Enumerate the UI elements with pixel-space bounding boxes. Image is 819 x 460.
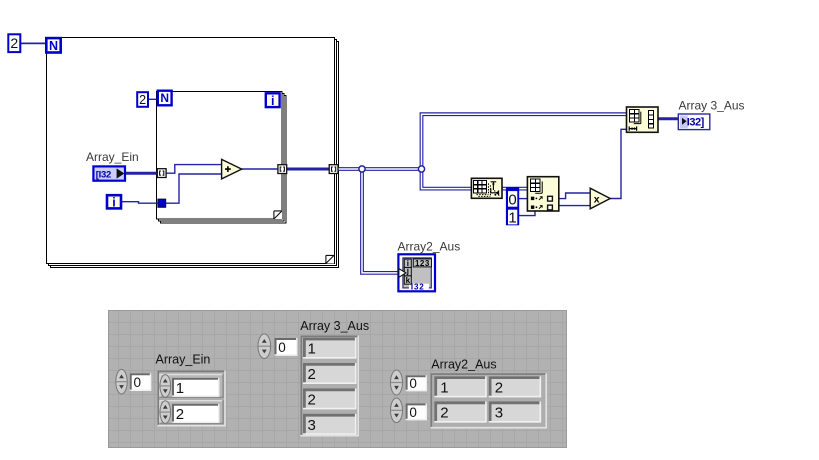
- indicator terminal Array 3_Aus [I32]: [678, 114, 710, 130]
- wire: junction down to Transpose (2D): [422, 169, 472, 189]
- Array2_Aus element 1,1: [434, 376, 486, 397]
- Array_Ein index spinner: [116, 369, 127, 394]
- wire: left tunnel to adder upper input: [166, 165, 222, 174]
- svg-text:N: N: [160, 91, 169, 105]
- 0 and 1 constants rail: [506, 187, 519, 227]
- svg-text:I32: I32: [411, 283, 425, 292]
- svg-text:3: 3: [308, 417, 316, 434]
- Array 3_Aus element 4: [303, 414, 357, 435]
- inner for loop frame: [157, 92, 287, 224]
- svg-text:0: 0: [409, 405, 417, 420]
- Array2_Aus element 1,2: [489, 376, 541, 397]
- svg-text:i: i: [112, 195, 115, 209]
- Array_Ein element 2: [159, 400, 224, 424]
- wire: junction up to Build Array (2D): [422, 114, 627, 169]
- Array2_Aus row index spinner 2: [391, 398, 403, 423]
- fold corner outer loop: [326, 255, 334, 263]
- svg-text:Array_Ein: Array_Ein: [156, 353, 211, 367]
- Array 3_Aus container: [301, 336, 360, 437]
- adder node (+): [222, 159, 242, 179]
- wire: multiply out to Build Array: [610, 129, 627, 198]
- wire: constant 2 to outer N: [21, 42, 47, 44]
- Array2_Aus element 2,1: [434, 401, 486, 422]
- svg-text:2: 2: [308, 366, 316, 383]
- svg-text:1: 1: [176, 380, 184, 397]
- indicator terminal Array2_Aus (2D array): [398, 254, 435, 291]
- svg-text:2: 2: [308, 391, 316, 408]
- svg-text:2: 2: [176, 406, 184, 423]
- svg-text:0: 0: [134, 375, 142, 390]
- Array_Ein index box: [130, 373, 152, 391]
- Array2_Aus row index spinner 1: [391, 370, 403, 395]
- svg-text:2: 2: [495, 379, 503, 396]
- svg-text:2: 2: [10, 35, 18, 51]
- svg-text:N: N: [49, 39, 58, 53]
- wire: adder output to inner right tunnel: [242, 168, 279, 170]
- svg-text:x: x: [594, 193, 600, 205]
- svg-text:i: i: [271, 94, 274, 108]
- Array2_Aus element 2,2: [489, 401, 541, 422]
- svg-text:Array_Ein: Array_Ein: [86, 150, 139, 164]
- svg-text:j: j: [406, 266, 409, 275]
- svg-text:I32]: I32]: [687, 117, 705, 129]
- Array2_Aus row index box 1: [406, 375, 427, 391]
- svg-text:Array2_Aus: Array2_Aus: [398, 240, 461, 254]
- Array 3_Aus element 1: [303, 338, 357, 359]
- svg-text:Array 3_Aus: Array 3_Aus: [300, 319, 369, 333]
- build array node: [627, 107, 659, 132]
- wire: blue tunnel to adder lower input: [166, 174, 222, 203]
- Array 3_Aus element 3: [303, 388, 357, 409]
- transpose 2D array node U1: [471, 178, 502, 198]
- Array2_Aus row index box 2: [406, 403, 427, 420]
- svg-text:3: 3: [495, 405, 503, 422]
- wire: Transpose to Index Array (2D): [502, 187, 528, 191]
- wire junction 1: [359, 166, 365, 172]
- wire: 0 constant to Index Array: [519, 198, 528, 200]
- svg-text:0: 0: [508, 192, 516, 209]
- wire: Index Array out2 to multiply: [559, 205, 591, 207]
- Array 3_Aus element 2: [303, 363, 357, 384]
- fold corner inner loop: [274, 211, 282, 219]
- i terminal (outer loop): [107, 195, 121, 209]
- Array 3_Aus index box: [275, 338, 298, 356]
- svg-text:Array 3_Aus: Array 3_Aus: [679, 99, 745, 113]
- wire: i terminal to inner loop blue tunnel: [122, 202, 158, 204]
- svg-text:2: 2: [139, 93, 146, 107]
- Array2_Aus container: [431, 373, 548, 428]
- N terminal (inner loop): [158, 91, 172, 106]
- Array_Ein container: [158, 371, 226, 427]
- wire: 1 constant to Index Array bottom: [519, 211, 535, 216]
- outer for loop frame: [47, 38, 339, 268]
- index array node: [527, 177, 558, 211]
- wire: junction down to Array2_Aus terminal (2D): [362, 169, 399, 273]
- wire: outer tunnel to junctions (2D array): [338, 167, 422, 171]
- Array_Ein element 1: [159, 374, 224, 398]
- N terminal (outer loop): [46, 38, 60, 53]
- svg-text:123: 123: [415, 259, 430, 268]
- svg-text:0: 0: [278, 340, 286, 355]
- svg-text:0: 0: [409, 376, 417, 391]
- wire: inner tunnel to outer tunnel (1D array): [287, 168, 330, 171]
- svg-text:[I32: [I32: [96, 169, 111, 180]
- blue square tunnel (i into inner loop): [158, 199, 166, 207]
- svg-text:1: 1: [440, 379, 448, 396]
- svg-text:Array2_Aus: Array2_Aus: [431, 358, 496, 372]
- control terminal Array_Ein [I32]: [93, 166, 125, 180]
- constant 2 (outer): [8, 34, 20, 52]
- wire: constant 2 to inner N: [148, 98, 158, 100]
- svg-text:1: 1: [508, 210, 516, 227]
- wire: Index Array out1 to multiply: [559, 193, 591, 199]
- wire: Array_Ein to inner loop tunnel (1D array): [125, 172, 158, 175]
- svg-text:1: 1: [308, 341, 316, 358]
- svg-text:k: k: [406, 276, 411, 285]
- multiply node (x): [590, 188, 610, 209]
- Array 3_Aus index spinner: [258, 334, 271, 359]
- wire junction 2: [418, 166, 424, 172]
- left tunnel inner loop: [157, 169, 166, 178]
- i terminal (inner loop, top right): [266, 93, 280, 108]
- right tunnel inner loop: [278, 165, 287, 174]
- tunnel outer loop: [329, 165, 338, 174]
- front panel background: [108, 310, 567, 448]
- svg-text:2: 2: [440, 405, 448, 422]
- panel grid: [108, 310, 567, 448]
- constant 2 (inner): [137, 92, 148, 107]
- wire: Build Array to Array 3_Aus terminal (1D): [658, 117, 679, 120]
